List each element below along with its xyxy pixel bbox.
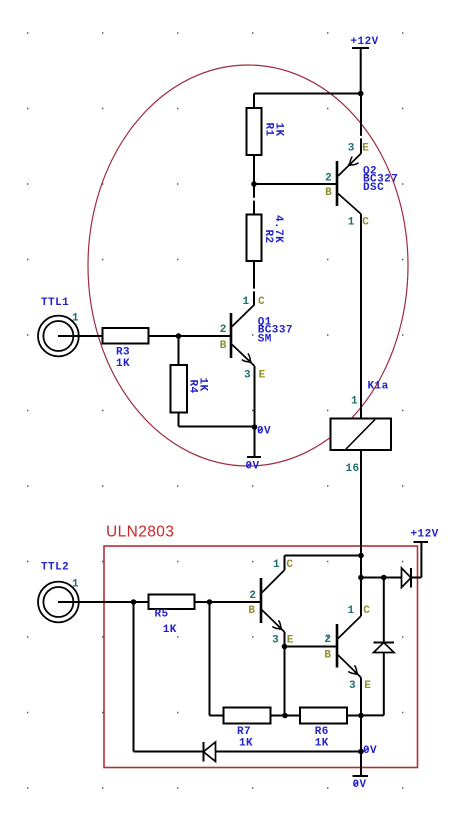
+12V power symbol P1: [351, 36, 379, 94]
connector TTL2: [38, 562, 79, 623]
svg-text:1K: 1K: [116, 358, 130, 370]
svg-text:R3: R3: [116, 347, 130, 359]
wire R4 top stub: [178, 336, 180, 365]
resistor R6: [300, 708, 347, 750]
svg-text:R7: R7: [237, 726, 251, 738]
wire R7 to R6: [271, 715, 301, 717]
svg-text:1: 1: [348, 217, 355, 229]
svg-text:TTL2: TTL2: [41, 562, 69, 574]
resistor R7: [224, 708, 271, 750]
svg-text:1: 1: [243, 296, 250, 308]
svg-text:1K: 1K: [239, 738, 253, 750]
diode D1: [204, 742, 216, 762]
svg-text:16: 16: [346, 463, 360, 475]
resistor R4: [171, 365, 209, 413]
svg-text:2: 2: [324, 634, 331, 646]
transistor Q2 BC327 PNP: [325, 142, 398, 228]
transistor T2 NPN: [324, 605, 371, 692]
ULN2803 label: [106, 524, 174, 541]
resistor R1: [247, 108, 285, 155]
svg-text:1: 1: [72, 579, 79, 591]
svg-text:ULN2803: ULN2803: [106, 524, 174, 541]
wire D3 down to R6 row: [361, 653, 384, 716]
wire R4 bottom to Q1 emitter: [179, 413, 255, 427]
svg-text:B: B: [248, 605, 255, 617]
svg-text:2: 2: [325, 173, 332, 185]
wire +12V rail to R1 top: [254, 94, 361, 109]
wire Q1 emitter down: [254, 366, 256, 427]
node junction emitter/R4/ground: [252, 424, 258, 430]
node junction R1/R2/Q2 base: [251, 181, 257, 187]
node junction diode branch: [381, 575, 387, 581]
svg-text:C: C: [286, 559, 293, 571]
svg-text:2: 2: [249, 590, 256, 602]
wire rail junction to right diode: [361, 577, 402, 579]
net label 0V: [257, 426, 271, 438]
transistor T1 NPN: [248, 559, 293, 647]
red highlight ellipse: [88, 65, 408, 466]
diode D3 freewheel: [374, 643, 395, 653]
svg-text:+12V: +12V: [411, 529, 439, 541]
resistor R3: [103, 328, 149, 370]
svg-text:R5: R5: [155, 609, 169, 621]
svg-text:E: E: [362, 142, 369, 154]
wire TTL2 to R5: [58, 601, 149, 603]
svg-text:SM: SM: [258, 333, 272, 345]
diode D2 to +12V: [402, 568, 412, 588]
wire Q2 collector down to relay: [360, 214, 362, 419]
svg-text:C: C: [258, 296, 265, 308]
svg-text:+12V: +12V: [351, 36, 379, 48]
wire rail down to ground: [360, 716, 362, 777]
svg-text:B: B: [325, 187, 332, 199]
wire relay bottom to ULN rail: [360, 450, 362, 556]
svg-text:3: 3: [349, 680, 356, 692]
wire T1 emitter down to R7/R6 row: [284, 647, 286, 716]
svg-text:C: C: [363, 605, 370, 617]
svg-text:E: E: [259, 370, 266, 382]
svg-text:1K: 1K: [197, 378, 209, 392]
node junction rail/T1 collector: [358, 553, 364, 559]
wire R5 to T1 base: [195, 601, 262, 603]
node junction T1 emitter: [282, 644, 288, 650]
svg-text:TTL1: TTL1: [41, 297, 69, 309]
node junction rail/R6/D3: [358, 713, 364, 719]
wire R3 to Q1 base: [149, 335, 232, 337]
connector TTL1: [38, 297, 79, 356]
wire T1 emitter to T2 base: [285, 646, 338, 648]
ULN2803 box: [104, 546, 418, 768]
svg-text:1: 1: [348, 605, 355, 617]
svg-text:1: 1: [351, 396, 358, 408]
wire TTL2 branch down to D1: [134, 602, 204, 752]
wire D2 to +12V symbol: [411, 542, 421, 578]
relay coil K1a: [331, 380, 392, 475]
wire T1 collector to rail: [285, 556, 362, 571]
svg-text:4.7K: 4.7K: [272, 215, 284, 243]
svg-text:1: 1: [72, 313, 79, 325]
wire R2 bottom to Q1 collector: [253, 261, 255, 305]
svg-text:B: B: [324, 649, 331, 661]
net label 0V bottom: [363, 745, 377, 757]
svg-text:E: E: [364, 680, 371, 692]
svg-text:1: 1: [273, 559, 280, 571]
wire TTL1 to R3: [58, 335, 103, 337]
node junction TTL2/diode branch: [131, 599, 137, 605]
node junction rail/D1: [358, 749, 364, 755]
svg-text:DSC: DSC: [363, 182, 384, 194]
svg-text:3: 3: [272, 635, 279, 647]
node junction rail/Q2 emitter: [358, 91, 364, 97]
svg-text:K1a: K1a: [368, 380, 389, 392]
svg-text:1K: 1K: [315, 738, 329, 750]
svg-text:C: C: [362, 217, 369, 229]
wire T1 emitter down: [284, 632, 286, 647]
+12V power symbol P2: [411, 529, 439, 543]
svg-text:E: E: [287, 635, 294, 647]
wire rail inside ULN: [360, 556, 362, 617]
ground symbol under Q1: [246, 427, 262, 473]
svg-text:B: B: [220, 340, 227, 352]
wire D1 to rail: [216, 751, 362, 753]
svg-text:1K: 1K: [163, 624, 177, 636]
transistor Q1 BC337 NPN: [220, 296, 293, 382]
node junction R5/R7 branch: [207, 599, 213, 605]
wire junction down to D3: [383, 578, 385, 643]
resistor R5: [149, 595, 195, 636]
wire R1 bottom to junction: [253, 155, 255, 184]
node junction R3/R4/base: [176, 333, 182, 339]
svg-text:1K: 1K: [273, 123, 285, 137]
node junction rail/diode wire: [358, 575, 364, 581]
wire Q2 emitter up to rail: [360, 94, 362, 154]
wire R5 junction down to R7: [210, 602, 224, 716]
ground symbol bottom: [353, 776, 369, 791]
wire R6 to rail: [347, 715, 361, 717]
wire Q2 base: [254, 183, 337, 185]
svg-text:2: 2: [220, 324, 227, 336]
wire T2 emitter down: [360, 678, 362, 716]
resistor R2: [247, 184, 285, 261]
svg-text:R6: R6: [315, 726, 329, 738]
node junction R7/R6/T1 emitter: [282, 713, 288, 719]
svg-text:3: 3: [244, 370, 251, 382]
svg-text:3: 3: [348, 142, 355, 154]
